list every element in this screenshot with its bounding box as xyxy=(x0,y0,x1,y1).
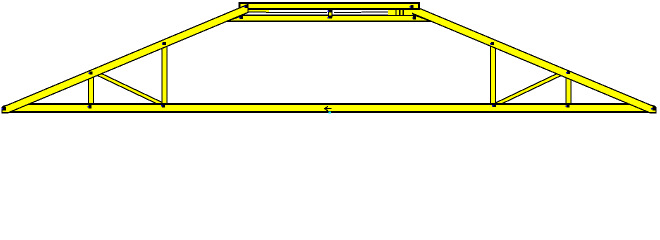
web W6 right short vertical xyxy=(566,71,572,107)
cap left wedge xyxy=(239,10,269,12)
web W5 right diagonal xyxy=(493,70,569,106)
joint dot W1 top xyxy=(89,71,93,74)
cyan cursor mark xyxy=(328,111,330,113)
center cap vertical web xyxy=(329,9,332,16)
lower flat chord (cap bottom) xyxy=(227,15,431,21)
right splice block with bars xyxy=(388,9,412,15)
bottom chord xyxy=(4,104,656,112)
joint dot right heel xyxy=(651,107,656,110)
joint dot right apex xyxy=(410,5,414,8)
top chord flat xyxy=(240,3,420,9)
web W3 left tall vertical xyxy=(162,42,168,107)
web W4 right tall vertical xyxy=(490,42,496,107)
joint dot W6 bottom xyxy=(566,104,570,107)
web W2 left diagonal xyxy=(90,70,166,106)
joint dot W4 top xyxy=(490,42,494,45)
top chord right (sloped) xyxy=(410,4,656,112)
joint dot left cap bottom xyxy=(239,16,243,19)
joint dot center cap top xyxy=(327,9,332,12)
joint dot center cap bottom xyxy=(327,16,332,19)
web W1 left short vertical xyxy=(88,71,94,107)
joint dot left apex xyxy=(244,5,248,8)
cap right wedge xyxy=(389,10,412,15)
drag arrow at bottom chord center xyxy=(325,106,332,111)
cap web line right xyxy=(334,11,389,14)
joint dot W6 top xyxy=(566,71,570,74)
joint dot W1 bottom xyxy=(88,105,92,108)
joint dot left heel xyxy=(1,107,6,110)
top chord left (sloped) xyxy=(2,4,248,112)
joint dot W4-W5 bottom xyxy=(492,104,496,107)
joint dot W2-W3 bottom xyxy=(161,104,165,107)
joint dot W3 top xyxy=(162,42,166,45)
joint dot right cap bottom xyxy=(412,16,416,19)
cap web line left xyxy=(239,11,327,14)
